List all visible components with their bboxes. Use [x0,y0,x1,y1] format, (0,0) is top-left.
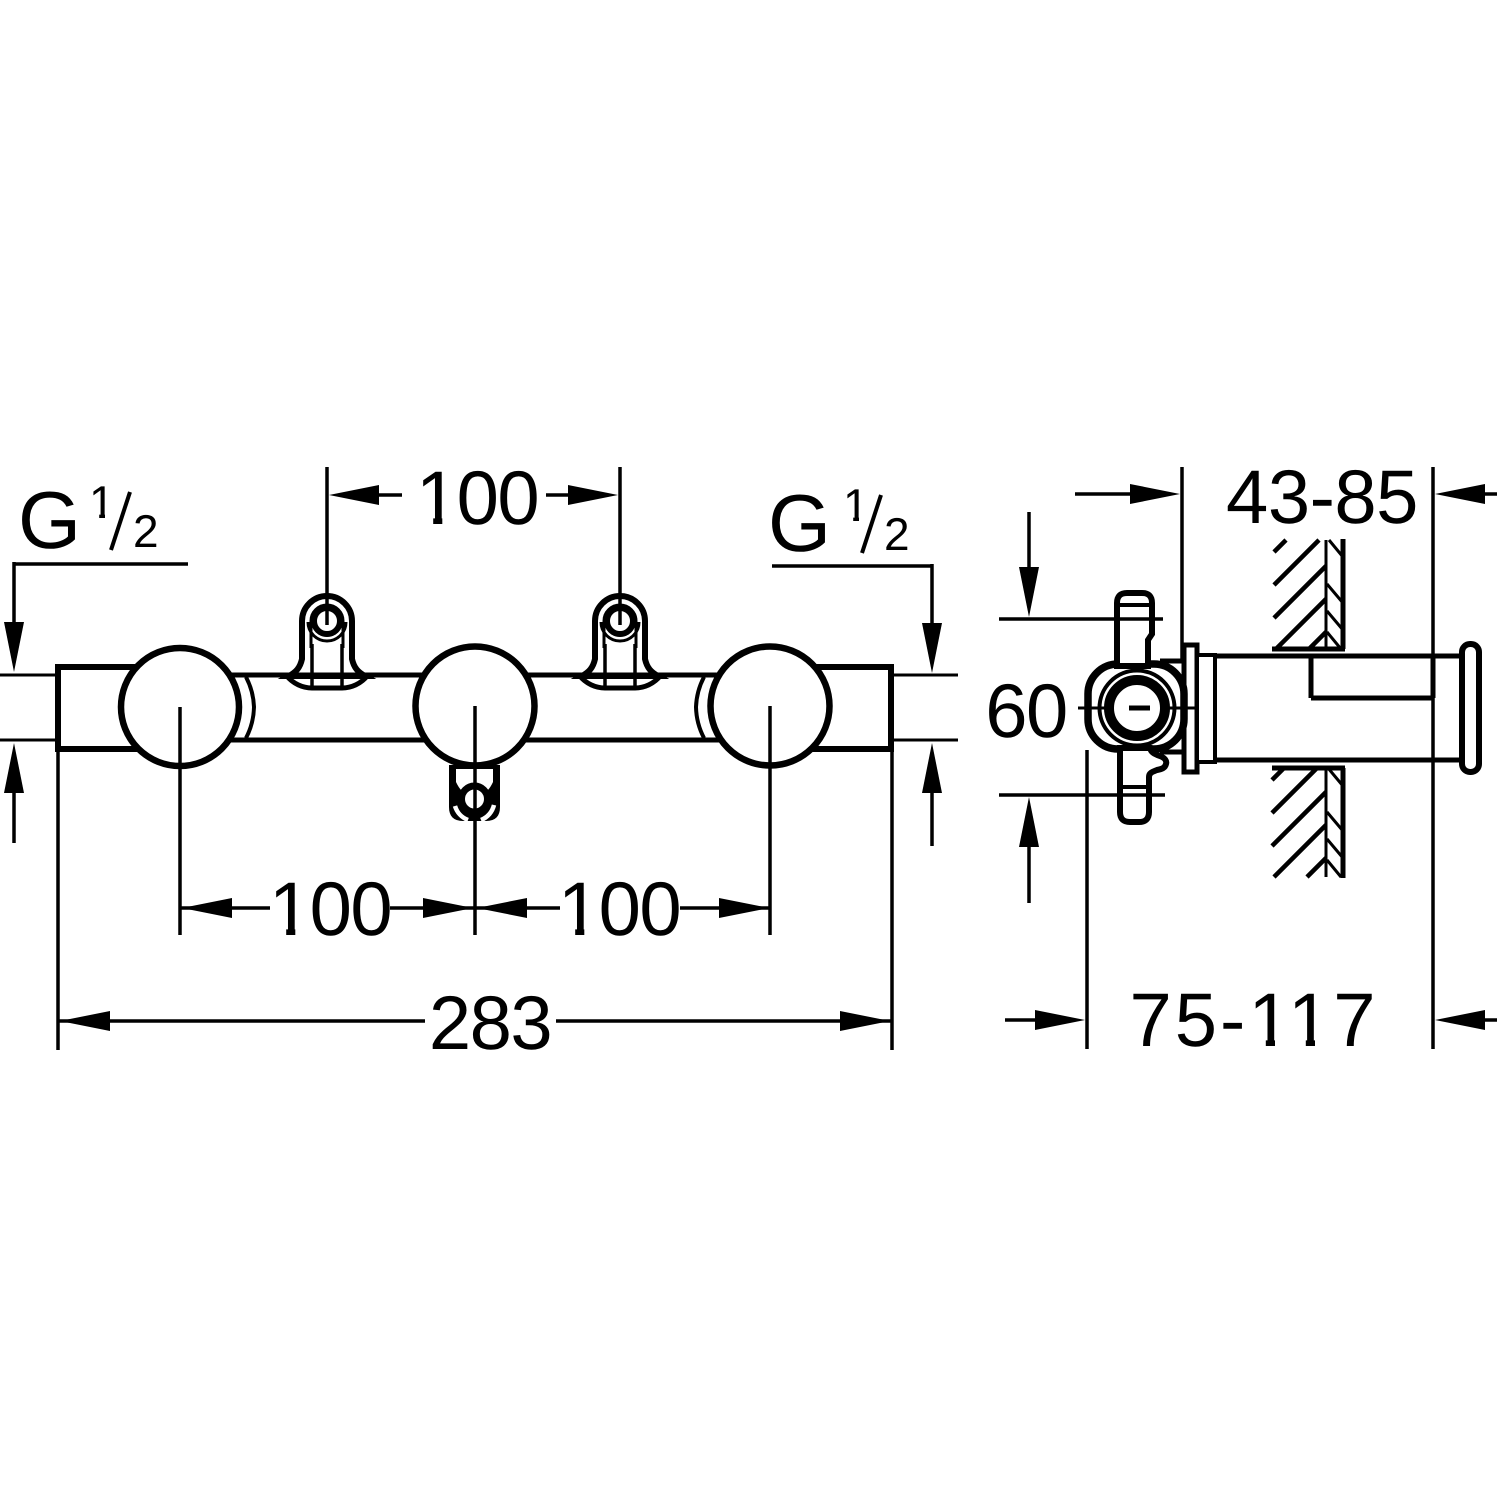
wall upper plaster line [1325,540,1328,649]
font patch: remove foot serif of digit 1 glyphs [420,517,433,525]
svg-text:2: 2 [884,508,910,560]
wall lower hole edge [1272,766,1345,771]
dimension 100 top line right segment [546,493,570,497]
dimension 100 bottom-right line [680,906,771,910]
dimension 60 top line [999,617,1163,621]
valve body circle 1 [121,648,239,766]
housing cylinder top line [1201,654,1464,659]
dimension 43-85 arrow right [1435,484,1485,504]
svg-text:100: 100 [558,867,680,952]
svg-text:G: G [768,479,831,569]
housing cylinder left seam [1213,656,1217,760]
valve body circle 3 [711,647,830,766]
extension line 283 right [890,750,894,1050]
dimension 100 bottom-left line mid [390,906,560,910]
dimension 283 line left [58,1019,425,1023]
dimension 75-117 arrow left [1005,1018,1036,1022]
leader G 1/2 left horizontal [13,562,188,566]
flange spacer [1197,655,1215,762]
valve body circle 2 [416,647,535,766]
dimension 283 arrow left [60,1011,110,1031]
dimension 100 bottom-right arrow left [477,898,527,918]
svg-text:283: 283 [429,981,551,1066]
svg-text:43-85: 43-85 [1226,455,1418,540]
svg-text:1: 1 [89,476,115,528]
right end cap G1/2 connector [812,667,891,749]
svg-text:G: G [18,476,81,566]
dimension 60 bottom line [999,793,1165,797]
valve side view center dash line [1078,707,1113,710]
dimension 100 bottom-right arrow right [719,898,769,918]
dimension 100 bottom-left arrow right [423,898,473,918]
wire pipe continuation right top [891,674,958,677]
centerline valve 2 [473,706,477,935]
dimension 60 arrow down [1027,512,1031,570]
svg-text:60: 60 [985,669,1067,754]
wall lower section hatching [1272,768,1326,877]
svg-text:100: 100 [269,867,391,952]
rail body bottom line [130,738,820,743]
bottom outlet nipple side view [1120,748,1166,822]
svg-text:1: 1 [843,479,869,531]
leader G 1/2 right arrow up [922,743,942,793]
union arc right of valve 1 [246,677,254,738]
dimension 75-117 arrow right [1435,1010,1485,1030]
left end cap G1/2 connector [58,667,139,749]
leader G 1/2 left arrow up [4,743,24,793]
wall lower plaster line [1325,768,1328,877]
wire pipe continuation left bottom [0,739,58,742]
svg-text:100: 100 [416,456,538,541]
centerline valve 1 [178,707,182,935]
extension line 283 left [56,750,60,1050]
dimension 283 arrow right [840,1011,890,1031]
bottom lug below valve 2 [449,765,500,821]
mounting lug 2 with screw hole [578,596,662,688]
wall lower finish layer hatching [1327,768,1343,877]
union arc left of valve 3 [696,677,704,738]
wall lower surface line [1341,768,1346,878]
housing cylinder bottom line [1201,758,1464,763]
wall upper section hatching [1274,540,1326,649]
valve body side view middle circle [1100,671,1175,746]
dimension 100 top arrow right [568,485,618,505]
dimension 100 top arrow left [329,485,379,505]
top inlet nipple side view [1117,593,1152,666]
dimension 43-85 arrow left [1075,492,1130,496]
svg-text:75-117: 75-117 [1129,978,1378,1063]
leader G 1/2 left arrow down [4,622,24,672]
mounting flange plate [1160,659,1186,664]
svg-text:2: 2 [133,505,159,557]
extension line right shared [1431,467,1435,1049]
extension line 75-117 left [1085,750,1089,1049]
wire pipe continuation left top [0,674,58,677]
dimension 100 bottom-left arrow left [182,898,232,918]
centerline lug 1 hole [325,467,329,625]
leader G 1/2 right horizontal [772,564,932,568]
wire pipe continuation right bottom [891,739,958,742]
centerline lug 2 hole [618,467,622,625]
leader G 1/2 left vertical [12,562,16,624]
dimension 60 arrow up [1019,797,1039,847]
wall upper finish layer hatching [1327,540,1343,649]
centerline valve 3 [768,706,772,935]
rail body top line [130,673,820,678]
valve body side view outer square [1088,664,1184,749]
wall upper surface line [1341,539,1346,649]
housing inner sleeve recess [1309,657,1314,698]
dimension 283 line right [556,1019,892,1023]
mounting lug 1 with screw hole [285,596,369,688]
valve body side view cartridge ring [1109,680,1165,736]
extension line 43-85 left [1180,467,1184,662]
wall upper hole edge [1272,647,1345,652]
housing end cap [1462,644,1479,772]
leader G 1/2 right vertical [930,564,934,624]
leader G 1/2 right arrow down [922,623,942,673]
dimension 100 top line left segment [377,493,402,497]
dimension 100 bottom-left line [180,906,270,910]
